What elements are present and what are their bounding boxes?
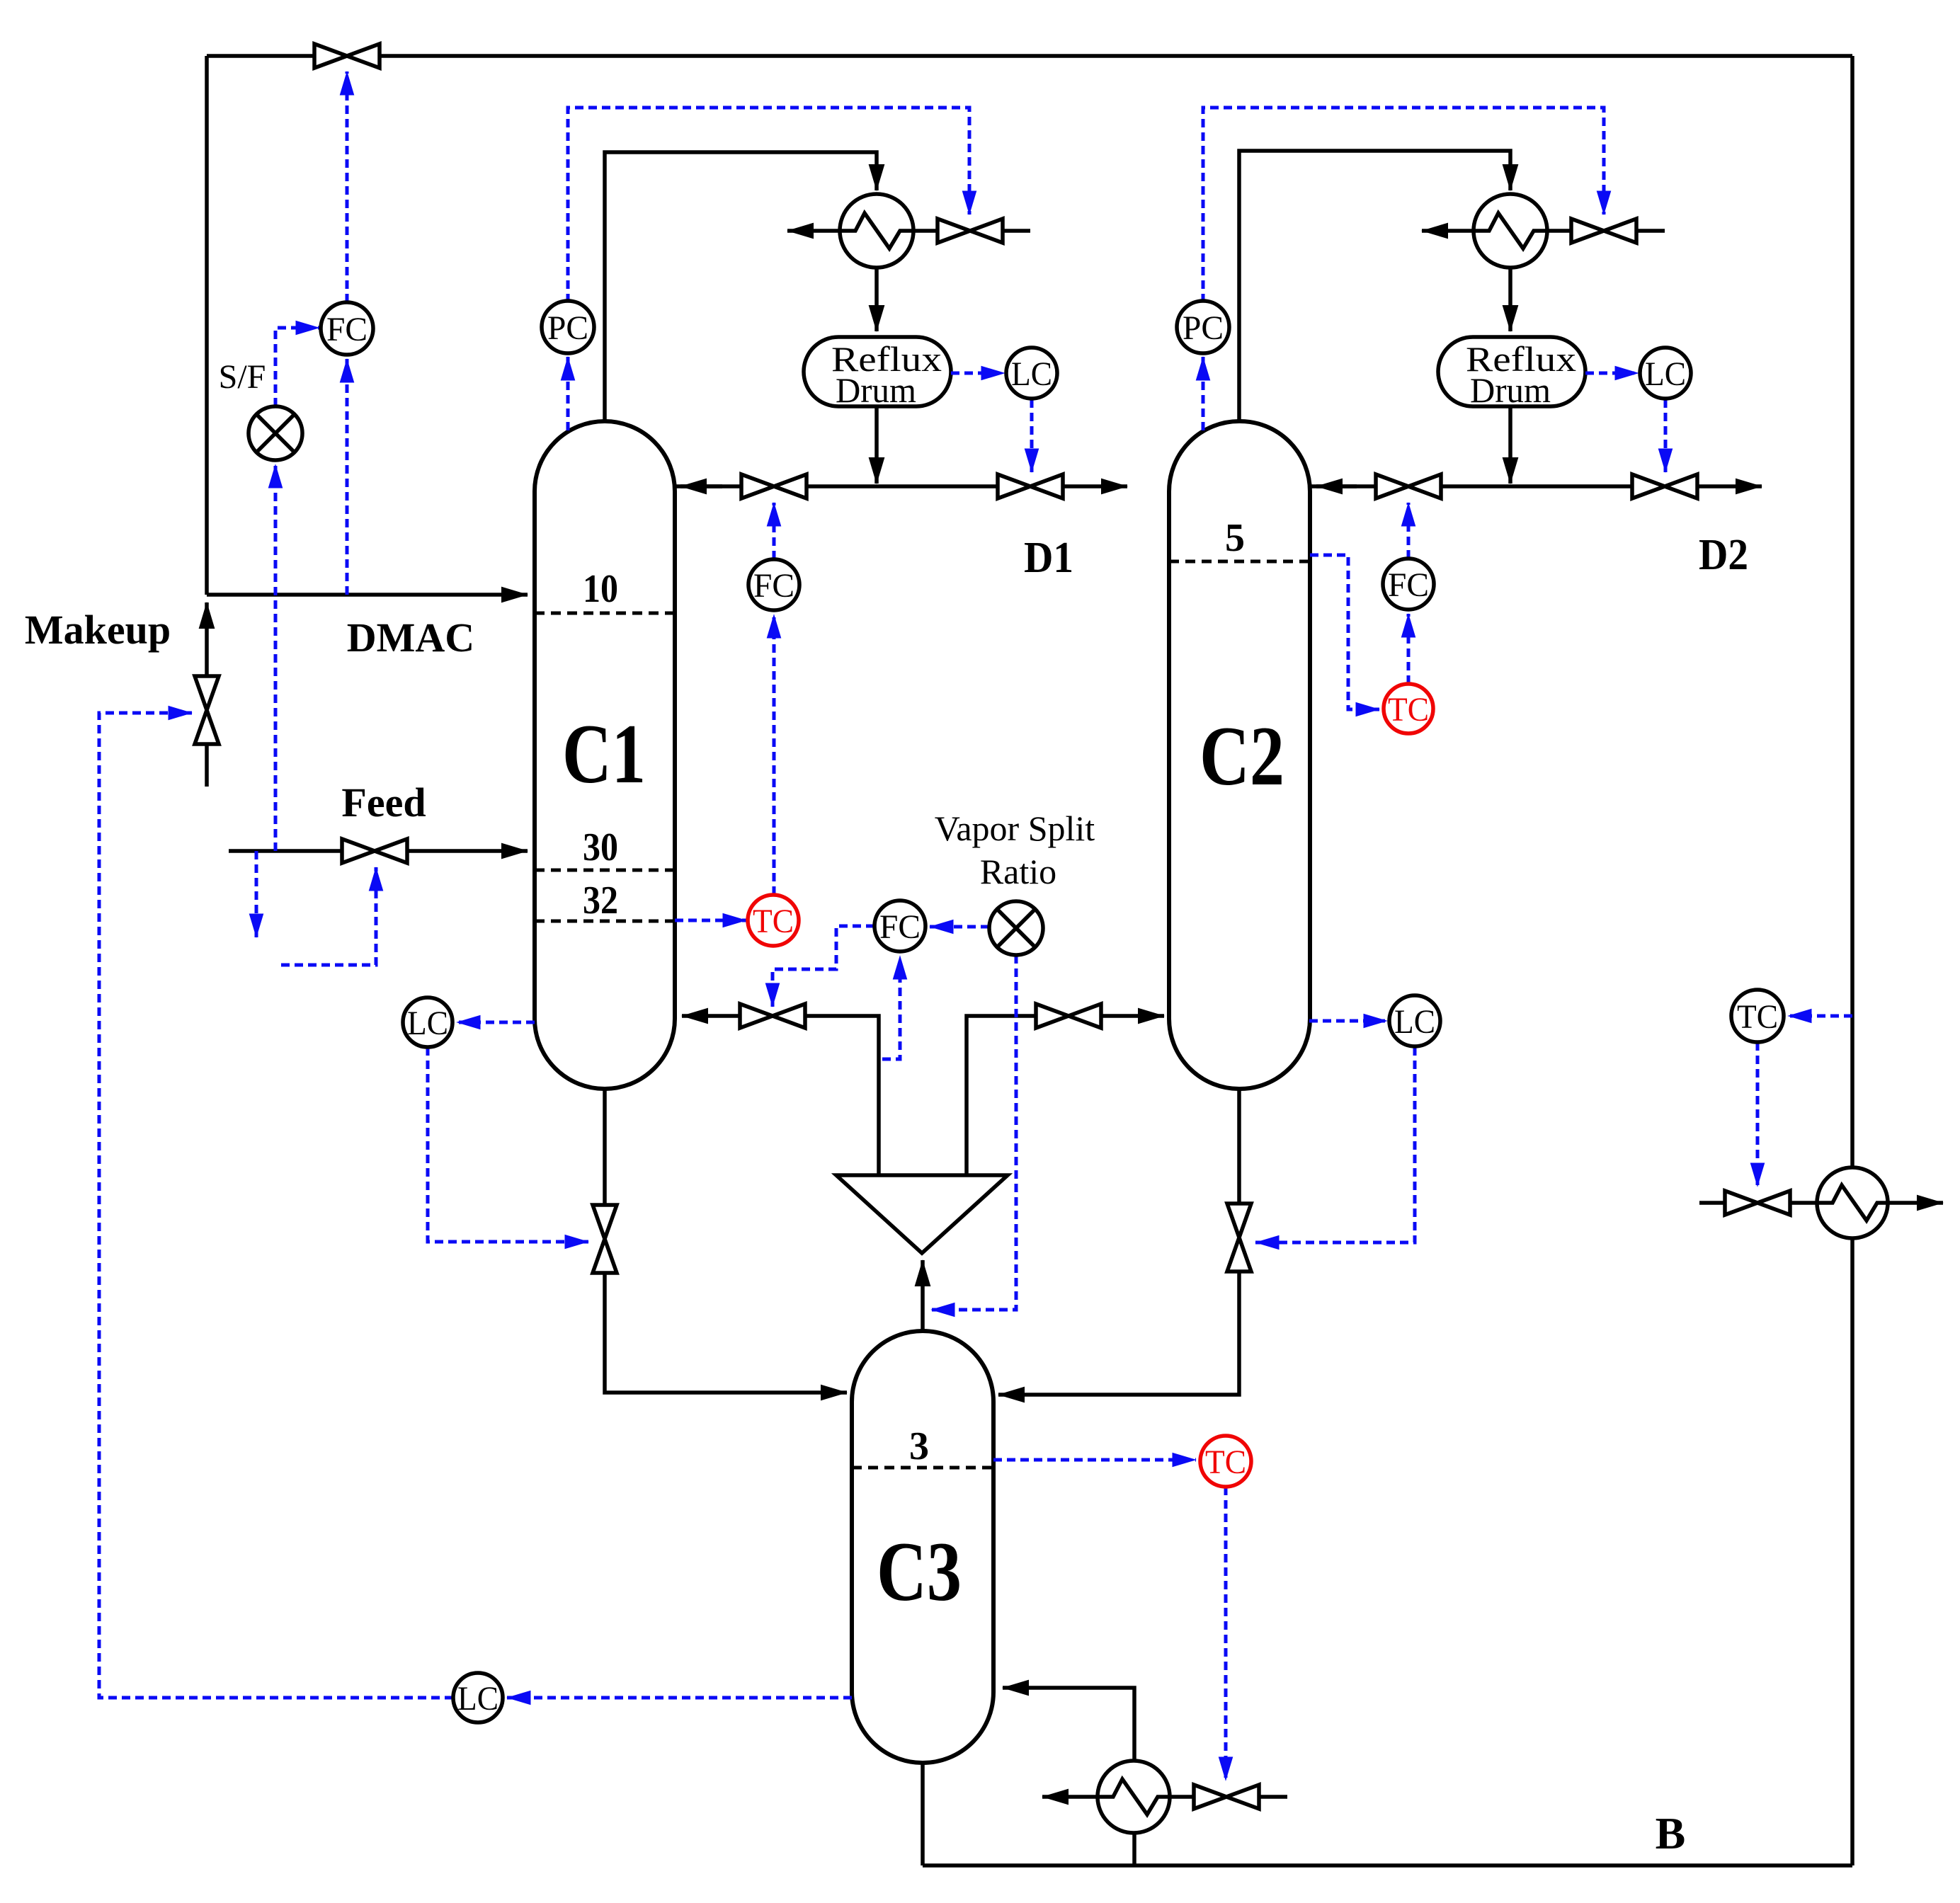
wire LC to D1 valve xyxy=(1030,399,1034,472)
controller PC2 xyxy=(1177,301,1229,353)
valves xyxy=(195,44,1790,1809)
wire coolant outlet condenser2 xyxy=(1422,229,1474,233)
reflux drum 1 xyxy=(804,337,951,406)
svg-text:FC: FC xyxy=(1388,566,1429,604)
wire C3 tray3 tap to TC3 xyxy=(993,1458,1196,1462)
node tray 10 line C1 xyxy=(535,612,675,615)
wire coolant inlet condenser1 xyxy=(913,229,1030,233)
wire LC to C2 bottoms valve xyxy=(1255,1047,1415,1242)
wire LC to C1 bottoms valve xyxy=(428,1047,588,1242)
svg-text:LC: LC xyxy=(457,1680,498,1718)
wire feed flow tap to feed FC xyxy=(255,851,258,937)
vapor splitter funnel xyxy=(836,1175,1008,1253)
heat exchanger condenser2 xyxy=(1474,194,1547,268)
wire LC3 to makeup valve xyxy=(99,713,453,1698)
valve vapor branch right xyxy=(1036,1004,1101,1028)
wire vapor branch right to C2 xyxy=(967,1016,1164,1175)
controller FC reflux2 xyxy=(1383,559,1434,610)
wire PC1 to condenser1 valve xyxy=(568,108,969,302)
column C2 xyxy=(1169,421,1310,1089)
wire LC2 to D2 valve xyxy=(1664,399,1668,472)
wire makeup riser xyxy=(205,602,209,787)
controller FC vapor split xyxy=(874,901,925,951)
valve reflux C2 xyxy=(1376,474,1441,498)
wire vapor FC to left branch valve xyxy=(773,926,874,1007)
wire reboiler heating inlet xyxy=(1170,1795,1287,1799)
wire top recycle header xyxy=(207,54,1852,58)
valve D2 product xyxy=(1632,474,1697,498)
valve makeup vertical xyxy=(195,676,219,744)
heat exchanger B cooler xyxy=(1817,1167,1888,1238)
reflux drum 2 xyxy=(1438,337,1585,406)
svg-text:Ratio: Ratio xyxy=(980,852,1056,891)
svg-text:D1: D1 xyxy=(1024,534,1073,582)
svg-text:Vapor Split: Vapor Split xyxy=(935,808,1095,848)
svg-text:B: B xyxy=(1656,1808,1686,1858)
wire DMAC line into C1 xyxy=(207,593,528,597)
wire C2 overhead vapor to condenser xyxy=(1239,151,1510,423)
wire condenser2 to reflux drum2 xyxy=(1508,268,1512,331)
svg-text:FC: FC xyxy=(753,567,794,605)
wire reboiler riser return to C3 xyxy=(1003,1688,1134,1865)
node tray 3 line C3 xyxy=(852,1466,993,1470)
svg-text:10: 10 xyxy=(583,567,618,611)
wire PC2 to condenser2 valve xyxy=(1203,108,1604,302)
wire tray32 tap to TC1 xyxy=(675,919,746,922)
wire drum1 outlet down xyxy=(874,406,879,484)
valve recycle top xyxy=(314,44,380,68)
svg-text:C2: C2 xyxy=(1200,709,1284,803)
wire condenser1 to reflux drum1 xyxy=(874,268,879,331)
controller LC sump C1 xyxy=(403,998,452,1047)
wire drum2 outlet down xyxy=(1508,406,1512,484)
wire reflux arrow into C2 xyxy=(1316,484,1357,488)
wire C1 bottoms to C3 xyxy=(605,1089,847,1393)
svg-text:S/F: S/F xyxy=(219,358,266,396)
svg-text:LC: LC xyxy=(407,1005,448,1042)
svg-text:32: 32 xyxy=(583,879,618,922)
svg-text:C1: C1 xyxy=(562,707,646,801)
svg-text:30: 30 xyxy=(583,825,618,869)
valve feed xyxy=(342,839,407,863)
wire C2 bottoms to C3 xyxy=(998,1089,1239,1395)
svg-text:FC: FC xyxy=(879,908,921,946)
controller TC B cooler xyxy=(1731,990,1784,1042)
wire reboiler heating outlet xyxy=(1042,1795,1098,1799)
node tray 32 line C1 xyxy=(535,920,675,923)
controller TC3 tray3 red xyxy=(1200,1436,1251,1487)
svg-text:Feed: Feed xyxy=(341,779,426,825)
wire coolant outlet condenser1 xyxy=(787,229,840,233)
controller LC sump C3 xyxy=(453,1673,503,1722)
wire C1 sump tap to LC xyxy=(457,1021,535,1024)
valve condenser2 coolant xyxy=(1571,219,1636,243)
wire B line tap to TC xyxy=(1788,1015,1852,1018)
valve reflux C1 xyxy=(741,474,807,498)
svg-text:D2: D2 xyxy=(1699,531,1748,579)
valve C1 bottoms vertical xyxy=(593,1205,617,1273)
wire C2 sump tap to LC xyxy=(1309,1019,1387,1023)
heat exchanger reboiler C3 xyxy=(1098,1761,1170,1833)
wire ratio to vapor FC xyxy=(930,925,989,929)
controller FC DMAC xyxy=(321,302,373,355)
svg-text:C3: C3 xyxy=(877,1524,962,1618)
svg-text:TC: TC xyxy=(1205,1444,1246,1481)
heat exchanger condenser1 xyxy=(840,194,913,268)
wire feed line into C1 xyxy=(229,849,528,853)
svg-text:TC: TC xyxy=(1388,691,1429,728)
wire B cooler water outlet xyxy=(1888,1201,1943,1205)
controller TC2 tray5 red xyxy=(1384,684,1433,733)
svg-text:PC: PC xyxy=(1183,309,1224,347)
controller LC drum1 xyxy=(1006,348,1057,399)
wire drum1 to LC xyxy=(951,372,1005,375)
ratio element S/F xyxy=(249,406,302,460)
wire vapor branch left to C1 xyxy=(682,1016,879,1175)
controller LC sump C2 xyxy=(1389,995,1440,1046)
controller TC1 tray32 red xyxy=(748,895,799,946)
wire TC to B cooler valve xyxy=(1756,1042,1760,1187)
wire ratio tap to riser xyxy=(931,955,1016,1310)
svg-text:DMAC: DMAC xyxy=(347,615,474,661)
wire FC2 to reflux valve2 xyxy=(1407,503,1411,559)
wire right border recycle down xyxy=(1850,56,1854,1865)
node tray 5 line C2 xyxy=(1169,560,1310,564)
wire DMAC flow tap to FC xyxy=(346,359,349,595)
svg-text:Makeup: Makeup xyxy=(25,607,171,653)
wire S/F ratio to FC xyxy=(275,328,319,406)
wire TC2 to FC2 xyxy=(1407,614,1411,684)
controller FC reflux1 xyxy=(748,559,799,610)
wire tray5 tap to TC2 xyxy=(1310,555,1379,709)
wire C1 top tap to PC1 xyxy=(566,357,570,430)
wire coolant inlet condenser2 xyxy=(1547,229,1665,233)
svg-text:Drum: Drum xyxy=(1470,370,1551,410)
ratio element vapor split xyxy=(989,901,1043,955)
svg-text:FC: FC xyxy=(326,311,367,348)
valve C2 bottoms vertical xyxy=(1227,1204,1251,1271)
wire TC1 to reflux FC1 xyxy=(773,615,776,895)
svg-text:LC: LC xyxy=(1645,355,1686,393)
wire bottom B line xyxy=(923,1863,1852,1868)
svg-text:3: 3 xyxy=(909,1424,929,1468)
wire C3 vapor riser to splitter xyxy=(921,1260,925,1331)
wire C2 top tap to PC2 xyxy=(1202,357,1205,430)
valve B cooler water xyxy=(1725,1191,1790,1215)
wire C1 overhead vapor to condenser xyxy=(605,152,877,423)
svg-text:LC: LC xyxy=(1394,1003,1435,1041)
wire drum2 to LC2 xyxy=(1585,372,1639,375)
wire FC to recycle valve xyxy=(346,72,349,302)
valve vapor branch left xyxy=(740,1004,805,1028)
wire feed flow tap to S/F xyxy=(274,464,278,851)
svg-text:TC: TC xyxy=(753,903,794,940)
valve D1 product xyxy=(998,474,1063,498)
wire TC3 to reboiler valve xyxy=(1224,1487,1228,1781)
svg-text:TC: TC xyxy=(1737,998,1778,1036)
wire left down from header xyxy=(205,56,209,595)
wire D2 distillate line xyxy=(1311,484,1762,488)
wire B cooler water inlet xyxy=(1699,1201,1817,1205)
controller PC1 xyxy=(542,301,594,353)
valve condenser1 coolant xyxy=(938,219,1003,243)
wire vapor flow tap to vapor FC xyxy=(882,956,900,1059)
valve reboiler heating xyxy=(1194,1785,1259,1809)
column C1 xyxy=(535,421,675,1089)
wire C3 sump tap to LC3 xyxy=(507,1696,852,1700)
svg-text:LC: LC xyxy=(1011,355,1052,393)
node tray 30 line C1 xyxy=(535,869,675,872)
wire C3 bottoms down xyxy=(921,1763,925,1865)
svg-text:5: 5 xyxy=(1225,516,1245,560)
wire reflux arrow into C1 xyxy=(680,484,722,488)
column C3 xyxy=(852,1331,993,1763)
svg-text:PC: PC xyxy=(547,309,588,347)
controller LC drum2 xyxy=(1640,348,1691,399)
wire reflux FC1 to reflux valve xyxy=(773,503,776,559)
svg-text:Drum: Drum xyxy=(836,370,916,410)
wire feed FC to feed valve xyxy=(281,867,376,965)
wire D1 distillate line xyxy=(676,484,1127,488)
